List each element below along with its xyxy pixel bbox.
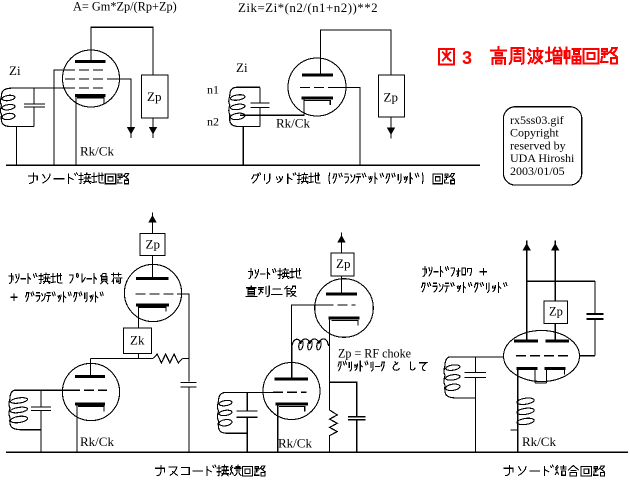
- coil bottom wire BR: [457, 397, 476, 399]
- svg-text:Zi: Zi: [9, 63, 21, 78]
- capacitor bypass BL: [181, 382, 197, 384]
- coil input BR: [444, 357, 457, 398]
- feedback wire top: [527, 280, 595, 282]
- cap input BL bottom lead: [40, 411, 42, 430]
- caption cathode coupled circuit: [504, 465, 604, 476]
- svg-text:Zp: Zp: [147, 89, 161, 104]
- capacitor BR right: [586, 313, 603, 315]
- caption grounded grid circuit: [252, 173, 455, 184]
- arrow B+ below Zp2: [387, 128, 395, 136]
- svg-text:Zp = RF choke: Zp = RF choke: [338, 347, 411, 361]
- svg-text:Rk/Ck: Rk/Ck: [278, 436, 312, 451]
- wire coil bottom BM: [228, 432, 248, 434]
- wire coil bottom BL: [23, 429, 41, 431]
- wire down to Zp2: [390, 29, 392, 75]
- V2 grid: [300, 87, 338, 89]
- wire tank to ground: [16, 127, 18, 166]
- V1 plate: [75, 60, 106, 63]
- capacitor input BL: [31, 406, 51, 408]
- V6 cathode: [276, 403, 308, 406]
- ground bus bottom: [6, 451, 628, 453]
- V4 heater hook: [78, 406, 104, 411]
- Rk coil tail: [511, 429, 518, 431]
- RF choke: [292, 339, 329, 348]
- load box Zp2: [378, 75, 404, 117]
- wire plate top: [90, 26, 153, 28]
- Zk bottom lead: [138, 354, 140, 359]
- Rk lead to ground: [517, 429, 519, 452]
- label + grounded grid: [11, 292, 103, 302]
- tube V4 envelope (cascode lower): [62, 363, 119, 420]
- svg-text:Rk/Ck: Rk/Ck: [276, 116, 310, 131]
- wire coil bottom 2: [240, 126, 260, 128]
- cathode legs bridge: [535, 370, 547, 383]
- Zp2 bottom lead: [390, 117, 392, 128]
- V6 grid input wire: [226, 392, 273, 394]
- label cathode grounded: [248, 268, 300, 278]
- V4 grid input wire: [16, 389, 71, 391]
- Zp3 bottom lead: [152, 256, 154, 278]
- label grounded grid BR: [422, 283, 507, 293]
- cap input BM bottom lead: [246, 417, 248, 433]
- label cathode-grounded plate load: [9, 273, 122, 284]
- V1 heater hook: [77, 98, 104, 104]
- V5 heater hook: [332, 321, 359, 326]
- svg-text:Rk/Ck: Rk/Ck: [80, 434, 114, 449]
- arrow B+ right BR: [551, 243, 559, 251]
- tube V1 envelope: [63, 50, 120, 107]
- V1 grid g3: [65, 69, 107, 71]
- wire to ellipse right: [580, 355, 596, 357]
- svg-text:Zik=Zi*(n2/(n1+n2))**2: Zik=Zi*(n2/(n1+n2))**2: [238, 0, 378, 15]
- right cathode hook: [564, 370, 566, 375]
- V3 plate: [136, 277, 169, 280]
- Zp4 bottom lead: [341, 276, 343, 293]
- load box Zp5: [544, 301, 568, 323]
- svg-text:Zk: Zk: [130, 333, 145, 348]
- V4 cathode: [75, 402, 105, 405]
- cap C1 top lead: [33, 88, 35, 105]
- wire g1 input: [14, 87, 69, 89]
- V5 cathode: [328, 317, 359, 320]
- svg-text:Zp: Zp: [384, 90, 398, 105]
- wire branch to cap BM: [330, 382, 357, 417]
- coil input BL: [9, 390, 23, 430]
- label cathode follower +: [423, 267, 487, 277]
- wire coil top 2: [236, 86, 260, 88]
- svg-text:Rk/Ck: Rk/Ck: [522, 434, 556, 449]
- svg-text:Zi: Zi: [236, 60, 248, 75]
- wire tank BL to ground: [40, 430, 42, 452]
- coil input BM: [218, 393, 228, 434]
- V2 plate lead: [320, 30, 322, 74]
- svg-text:n2: n2: [207, 115, 219, 129]
- V5 plate: [326, 293, 357, 296]
- svg-text:Rk/Ck: Rk/Ck: [80, 144, 114, 159]
- arrow B+ below Zp: [149, 127, 157, 135]
- wire down to Zp: [152, 27, 154, 75]
- caption cathode grounded circuit: [28, 173, 128, 184]
- wire tank BM to ground: [246, 433, 248, 452]
- wire g3 to ground: [54, 70, 65, 165]
- Zp5 bottom lead: [554, 323, 556, 340]
- V4 cathode lead: [76, 405, 78, 452]
- arrow B+ top cascode: [148, 215, 156, 223]
- wire tank2 to ground: [242, 127, 244, 165]
- V6 cathode lead: [277, 405, 279, 452]
- resistor grid bleeder: [153, 354, 183, 363]
- V1 cathode: [75, 94, 106, 97]
- V1 plate lead: [90, 27, 92, 60]
- wire resistor to cap: [183, 358, 190, 360]
- cap BR lead down: [594, 319, 596, 356]
- V5 grid: [324, 304, 356, 306]
- V2 cathode: [302, 97, 334, 100]
- caption cascode circuit: [156, 465, 265, 476]
- capacitor input BR: [465, 372, 486, 374]
- svg-text:n1: n1: [207, 83, 219, 97]
- capacitor input BM: [236, 410, 257, 412]
- V4 grid: [70, 389, 107, 391]
- V2 plate: [302, 73, 333, 76]
- cap C2 bottom lead: [259, 108, 261, 127]
- tube V3 envelope (cascode upper): [124, 264, 181, 321]
- wire plate junction: [91, 358, 154, 360]
- V3 heater hook: [139, 307, 166, 311]
- input vertical BR: [474, 357, 476, 373]
- V7 right cathode: [545, 367, 566, 370]
- tube V5 envelope (upper): [315, 279, 374, 338]
- V6 heater hook: [279, 407, 305, 412]
- tube V6 envelope (lower): [263, 363, 320, 420]
- V3 cathode: [136, 303, 169, 306]
- wire g2 to supply: [107, 79, 131, 127]
- label grid leak: [338, 361, 426, 371]
- cap BM lead to ground: [356, 420, 358, 452]
- coil tapped input: [229, 87, 240, 126]
- tube V7 envelope (twin): [504, 331, 580, 382]
- V1 grid g1: [65, 87, 107, 89]
- wire down right: [594, 281, 596, 314]
- capacitor BM right: [348, 416, 365, 418]
- copyright box: [503, 107, 581, 185]
- V4 plate: [75, 375, 105, 378]
- capacitor C2: [251, 102, 270, 104]
- ground bus top: [6, 164, 480, 166]
- V7 right plate: [546, 340, 570, 343]
- left plate lead full: [526, 246, 528, 341]
- V3 grid wire right: [177, 294, 189, 382]
- wire grid to ground: [338, 88, 360, 166]
- load box Zp cascode: [140, 234, 165, 256]
- arrow B+ top middle: [337, 235, 345, 243]
- box Zk: [124, 328, 152, 354]
- svg-text:2003/01/05: 2003/01/05: [510, 164, 565, 178]
- cap C2 top lead: [259, 87, 261, 103]
- Zp bottom lead: [152, 118, 154, 127]
- grid input wire BR: [450, 356, 504, 358]
- wire coil bottom: [11, 126, 34, 128]
- cap input BL top lead: [40, 390, 42, 407]
- V3 cathode lead: [138, 306, 140, 328]
- svg-text:A= Gm*Zp/(Rp+Zp): A= Gm*Zp/(Rp+Zp): [73, 0, 177, 14]
- wire plate top 2: [320, 29, 391, 31]
- coil Zi input: [1, 88, 16, 127]
- V5 cathode lead down: [329, 319, 331, 410]
- tube V2 envelope: [288, 58, 346, 116]
- label series two stage: [246, 286, 296, 297]
- V1 cathode lead: [75, 97, 77, 165]
- cap input BM lead: [246, 393, 248, 412]
- svg-text:Zp: Zp: [549, 305, 563, 319]
- load box Zp: [142, 75, 169, 118]
- cap C1 bottom lead: [33, 107, 35, 127]
- V1 grid g2: [65, 78, 107, 80]
- V7 left plate: [514, 340, 538, 343]
- arrow below g2: [127, 127, 135, 135]
- V4 plate lead: [90, 359, 92, 376]
- V5 grid wire left down: [292, 305, 324, 347]
- V2 heater hook: [304, 101, 330, 106]
- V6 grid: [273, 391, 307, 393]
- svg-text:Zp: Zp: [336, 256, 350, 271]
- capacitor C1: [24, 103, 45, 105]
- svg-text:Zp: Zp: [146, 237, 160, 252]
- svg-text:3: 3: [462, 48, 472, 68]
- arrow B+ left BR: [523, 243, 531, 251]
- V6 plate lead up to choke: [291, 347, 293, 378]
- V6 plate: [275, 377, 308, 380]
- V2 cathode lead to tap: [240, 99, 304, 115]
- resistor Rg BM: [330, 410, 338, 439]
- left cathode lead: [517, 370, 519, 394]
- coil Rk BR: [517, 394, 519, 429]
- cap lead to ground BL: [188, 387, 190, 452]
- title figure 3 HF amplifier circuits (red): [439, 49, 454, 64]
- V3 grid: [136, 293, 178, 295]
- load box Zp4: [331, 253, 354, 276]
- V7 grid dashes: [516, 355, 572, 357]
- V7 left cathode: [517, 367, 538, 370]
